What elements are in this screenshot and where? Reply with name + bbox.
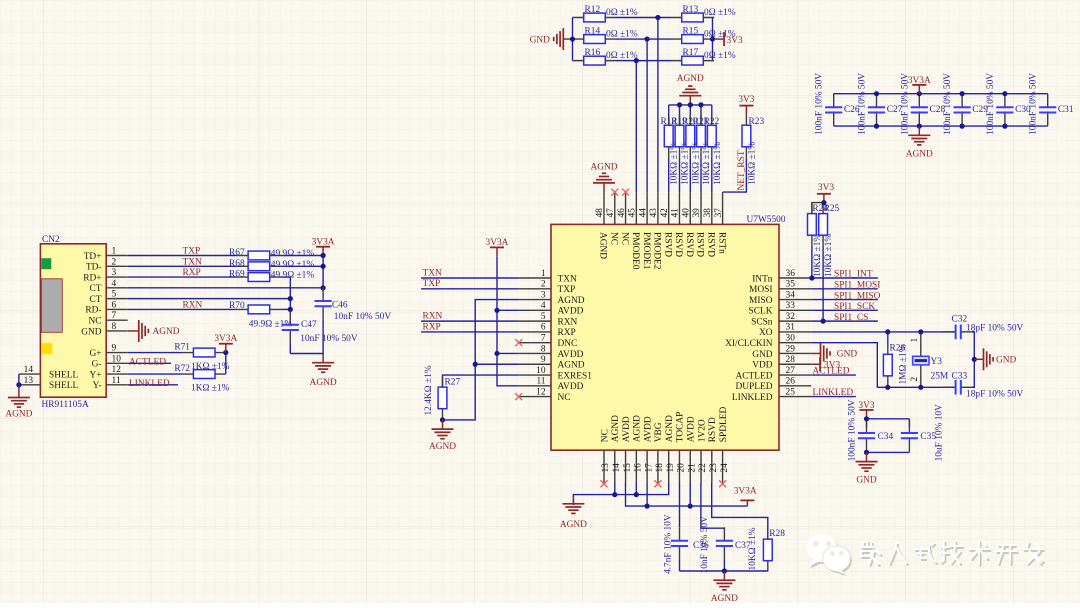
junction: [1002, 124, 1007, 129]
wire AGND rail: [290, 353, 323, 355]
wire: [700, 158, 702, 193]
svg-text:28: 28: [786, 355, 796, 365]
svg-text:10nF 10% 50V: 10nF 10% 50V: [700, 516, 710, 574]
resistor R22: [707, 114, 716, 157]
svg-text:45: 45: [628, 208, 638, 218]
svg-text:INTn: INTn: [752, 274, 773, 284]
wire EXRES1 pin10: [443, 375, 519, 387]
wire pin22 to C37: [701, 483, 725, 531]
svg-text:SHELL: SHELL: [49, 370, 78, 380]
svg-text:SPI1_MISO: SPI1_MISO: [834, 291, 881, 301]
svg-text:Y3: Y3: [931, 357, 943, 367]
svg-text:18pF 10% 50V: 18pF 10% 50V: [966, 390, 1024, 400]
wire: [616, 38, 671, 40]
svg-text:10KΩ ±1%: 10KΩ ±1%: [813, 234, 823, 277]
resistor R17: [671, 56, 714, 65]
wire: [866, 419, 868, 427]
wire XI/CLCKIN: [811, 343, 955, 388]
wire: [723, 560, 725, 571]
wire SPI1_MOSI: [811, 288, 878, 290]
wire shell to AGND: [18, 374, 20, 385]
capacitor C27: [868, 94, 885, 126]
resistor R16: [573, 56, 616, 65]
capacitor C28: [911, 94, 928, 126]
svg-text:TD+: TD+: [84, 252, 102, 262]
junction: [885, 385, 890, 390]
svg-text:AGND: AGND: [711, 594, 738, 603]
wire: [812, 203, 824, 214]
svg-text:RSVD: RSVD: [708, 417, 718, 442]
wire Y- LINKLED: [128, 384, 178, 386]
svg-text:0Ω ±1%: 0Ω ±1%: [606, 30, 638, 40]
IC U7 W5500 body: [551, 224, 779, 450]
junction: [677, 102, 682, 107]
svg-text:15: 15: [623, 463, 633, 473]
svg-text:16: 16: [634, 463, 644, 473]
ground GND: [974, 348, 993, 370]
svg-text:29: 29: [786, 344, 796, 354]
capacitor C26: [825, 94, 842, 126]
wire RXP: [421, 331, 519, 333]
svg-text:PMODE1: PMODE1: [641, 232, 651, 270]
svg-text:40: 40: [681, 208, 691, 218]
ground AGND: [713, 571, 735, 590]
svg-text:1KΩ ±1%: 1KΩ ±1%: [191, 384, 230, 394]
junction: [321, 264, 326, 269]
power 3V3: [739, 106, 753, 115]
svg-text:SPDLED: SPDLED: [719, 407, 729, 443]
capacitor C32: [942, 325, 974, 340]
U7 top pin numbers: [595, 208, 724, 218]
wire: [867, 418, 910, 420]
wire: [866, 451, 868, 454]
svg-text:3V3: 3V3: [738, 95, 754, 105]
svg-text:21: 21: [687, 463, 697, 473]
svg-text:R70: R70: [229, 301, 245, 311]
svg-text:R69: R69: [229, 270, 245, 280]
wire AGND rail: [669, 104, 712, 106]
svg-text:35: 35: [786, 280, 796, 290]
wire: [668, 158, 670, 193]
svg-text:7: 7: [112, 311, 117, 321]
wire 3V3A rail: [322, 256, 324, 288]
svg-text:AGND: AGND: [558, 296, 585, 306]
svg-text:CT: CT: [90, 284, 102, 294]
svg-text:R72: R72: [174, 364, 190, 374]
junction: [440, 417, 445, 422]
svg-text:AVDD: AVDD: [643, 416, 653, 442]
svg-text:R27: R27: [445, 377, 461, 387]
wire: [711, 105, 713, 125]
svg-text:6: 6: [541, 323, 546, 333]
wire: [822, 246, 824, 321]
wire: [713, 60, 715, 62]
capacitor C46: [315, 287, 332, 319]
svg-text:10KΩ ±1%: 10KΩ ±1%: [702, 142, 712, 185]
junction: [494, 351, 499, 356]
svg-text:MOSI: MOSI: [749, 285, 772, 295]
junction: [874, 124, 879, 129]
svg-text:44: 44: [638, 208, 648, 218]
svg-text:C34: C34: [878, 432, 894, 442]
wire: [713, 17, 715, 19]
wire PMODE2 vertical: [657, 18, 659, 193]
svg-text:10: 10: [112, 354, 122, 364]
wire RD-: [128, 308, 238, 310]
junction: [612, 492, 617, 497]
capacitor C47: [282, 311, 299, 343]
svg-text:AVDD: AVDD: [558, 350, 584, 360]
power 3V3: [860, 410, 874, 419]
junction: [634, 58, 639, 63]
wire AGND pin9 stub: [475, 363, 519, 365]
svg-text:38: 38: [703, 208, 713, 218]
wire 3V3A rail: [497, 256, 519, 386]
power 3V3 pin28: [811, 357, 820, 371]
junction: [885, 329, 890, 334]
svg-text:AGND: AGND: [590, 163, 617, 173]
svg-text:17: 17: [644, 463, 654, 473]
resistor R19: [675, 114, 684, 157]
U7 bottom pin numbers: [601, 463, 730, 473]
svg-text:10KΩ ±1%: 10KΩ ±1%: [747, 142, 757, 185]
wire TXN: [421, 277, 519, 279]
svg-text:49.9Ω ±1%: 49.9Ω ±1%: [271, 271, 315, 281]
wire AGND row: [573, 483, 668, 506]
capacitor C31: [1039, 94, 1056, 126]
wire SPI1_CS: [811, 320, 878, 322]
svg-text:33: 33: [786, 301, 796, 311]
svg-text:SCSn: SCSn: [751, 317, 773, 327]
svg-text:G-: G-: [92, 360, 102, 370]
svg-text:6: 6: [112, 300, 117, 310]
ground AGND: [562, 495, 584, 514]
svg-text:49.9Ω ±1%: 49.9Ω ±1%: [271, 249, 315, 259]
wire LINKLED: [811, 396, 856, 398]
U7 bottom pins: [604, 450, 723, 482]
wire: [572, 17, 575, 19]
resistor R23: [742, 114, 751, 157]
svg-text:Y+: Y+: [89, 370, 101, 380]
svg-text:12: 12: [112, 365, 122, 375]
wire: [289, 344, 291, 354]
svg-text:ACTLED: ACTLED: [813, 367, 850, 377]
svg-text:MISO: MISO: [749, 296, 773, 306]
capacitor C35: [901, 419, 918, 451]
junction: [809, 275, 814, 280]
resistor R67: [237, 251, 280, 260]
svg-text:AVDD: AVDD: [558, 382, 584, 392]
capacitor C33: [942, 380, 974, 395]
svg-text:10KΩ ±1%: 10KΩ ±1%: [691, 142, 701, 185]
svg-text:43: 43: [649, 208, 659, 218]
svg-text:3V3A: 3V3A: [214, 334, 237, 344]
junction: [1002, 91, 1007, 96]
connector CN2 body: [40, 244, 106, 397]
svg-text:12: 12: [536, 387, 546, 397]
wire: [887, 332, 889, 344]
svg-text:U7W5500: U7W5500: [747, 215, 786, 225]
svg-text:10nF 10% 50V: 10nF 10% 50V: [300, 334, 358, 344]
svg-text:RXN: RXN: [183, 300, 203, 310]
svg-text:AGND: AGND: [429, 442, 456, 452]
junction: [288, 296, 293, 301]
svg-text:TOCAP: TOCAP: [676, 412, 686, 443]
resistor R25: [819, 203, 828, 246]
svg-text:AGND: AGND: [677, 74, 704, 84]
svg-text:36: 36: [786, 269, 796, 279]
svg-text:ACTLED: ACTLED: [129, 357, 166, 367]
svg-text:0Ω ±1%: 0Ω ±1%: [704, 8, 736, 18]
resistor R13: [671, 13, 714, 22]
svg-text:10nF 10% 50V: 10nF 10% 50V: [334, 312, 392, 322]
resistor R71: [183, 348, 226, 357]
junction: [960, 91, 965, 96]
svg-text:11: 11: [536, 377, 545, 387]
svg-text:20: 20: [677, 463, 687, 473]
svg-text:NC: NC: [88, 316, 101, 326]
svg-text:SHELL: SHELL: [49, 381, 78, 391]
logo watermark: [806, 534, 1044, 576]
power 3V3: [817, 194, 831, 203]
svg-text:100nF 10% 50V: 100nF 10% 50V: [986, 73, 996, 135]
svg-text:AGND: AGND: [153, 327, 180, 337]
resistor R21: [697, 114, 706, 157]
ground GND power port: [554, 28, 573, 50]
svg-text:4: 4: [541, 301, 546, 311]
no-connect pin18: [654, 480, 661, 487]
wire G+: [128, 352, 183, 354]
CN2 left pin names SHELL: [49, 370, 78, 391]
svg-text:R14: R14: [585, 26, 601, 36]
svg-text:14: 14: [24, 365, 34, 375]
svg-text:100nF 10% 50V: 100nF 10% 50V: [858, 73, 868, 135]
junction: [473, 362, 478, 367]
wire AGND pin3/pin9: [443, 300, 519, 420]
junction: [917, 91, 922, 96]
junction: [16, 382, 21, 387]
resistor R14: [573, 35, 616, 44]
wire CT pin5: [128, 298, 291, 300]
no-connect pin13: [601, 480, 608, 487]
resistor R12: [573, 13, 616, 22]
svg-text:R15: R15: [683, 26, 699, 36]
wire XO row: [811, 331, 955, 333]
svg-text:31: 31: [786, 323, 796, 333]
wire: [689, 158, 691, 193]
U7 top pins: [604, 192, 723, 224]
junction: [864, 416, 869, 421]
svg-text:CT: CT: [90, 295, 102, 305]
wire SPI1_SCK: [811, 309, 878, 311]
svg-text:3V3A: 3V3A: [734, 486, 757, 496]
svg-text:TXP: TXP: [183, 247, 201, 257]
wire PMODE0 vertical: [635, 61, 637, 192]
svg-text:TXN: TXN: [423, 268, 442, 278]
svg-text:HR911105A: HR911105A: [42, 400, 89, 410]
ground AGND: [312, 354, 334, 373]
wire pin23 to R28: [712, 483, 768, 540]
ground GND: [856, 452, 878, 471]
svg-text:11: 11: [112, 376, 121, 386]
svg-text:SCLK: SCLK: [749, 307, 773, 317]
svg-text:12.4KΩ ±1%: 12.4KΩ ±1%: [424, 365, 434, 415]
svg-text:R68: R68: [229, 259, 245, 269]
svg-text:9: 9: [112, 344, 117, 354]
junction: [321, 285, 326, 290]
svg-text:RSVD: RSVD: [695, 232, 705, 257]
svg-text:10KΩ ±1%: 10KΩ ±1%: [748, 527, 758, 570]
wire R70 to CT node: [281, 308, 291, 310]
junction: [698, 102, 703, 107]
U7 right pin numbers: [786, 269, 796, 398]
junction: [722, 568, 727, 573]
U7 left pin numbers: [536, 269, 546, 398]
CN2 right pins: [106, 256, 128, 385]
svg-text:RSVD: RSVD: [706, 232, 716, 257]
wire AGND rail: [680, 570, 768, 572]
svg-text:1V2O: 1V2O: [697, 419, 707, 442]
wire SPI1_INT: [811, 277, 878, 279]
svg-text:R25: R25: [824, 204, 840, 214]
svg-text:0Ω ±1%: 0Ω ±1%: [704, 51, 736, 61]
wire pin16: [635, 483, 637, 495]
svg-text:ACTLED: ACTLED: [736, 371, 773, 381]
svg-text:AVDD: AVDD: [687, 416, 697, 442]
svg-text:R16: R16: [585, 48, 601, 58]
svg-text:R28: R28: [769, 529, 785, 539]
svg-text:48: 48: [595, 208, 605, 218]
wire AVDD row: [626, 483, 748, 507]
power 3V3A: [490, 247, 504, 256]
svg-text:XO: XO: [759, 328, 773, 338]
wire left bus: [572, 18, 574, 61]
svg-text:2: 2: [910, 377, 920, 382]
wire: [225, 353, 227, 375]
junction: [864, 450, 869, 455]
junction: [494, 308, 499, 313]
wire: [322, 320, 324, 354]
svg-text:RXP: RXP: [183, 268, 201, 278]
svg-text:100nF 10% 50V: 100nF 10% 50V: [815, 73, 825, 135]
resistor R20: [686, 114, 695, 157]
wire: [972, 332, 975, 387]
svg-text:DUPLED: DUPLED: [736, 382, 773, 392]
ground GND pin29: [811, 342, 830, 364]
svg-text:NC: NC: [558, 393, 571, 403]
svg-text:39: 39: [692, 208, 702, 218]
svg-text:PMODE2: PMODE2: [652, 232, 662, 270]
svg-text:NC: NC: [619, 232, 629, 245]
CN2 left pin numbers: [24, 365, 34, 386]
svg-text:AVDD: AVDD: [558, 307, 584, 317]
U7 left pins: [519, 278, 551, 397]
svg-text:22: 22: [698, 463, 708, 473]
svg-text:NC: NC: [600, 429, 610, 442]
junction: [874, 91, 879, 96]
svg-text:13: 13: [24, 376, 34, 386]
svg-text:100nF 10% 50V: 100nF 10% 50V: [943, 73, 953, 135]
svg-text:1MΩ ±1%: 1MΩ ±1%: [898, 344, 908, 384]
wire: [713, 38, 715, 40]
wire R69 to CT node: [281, 277, 291, 299]
wire TD+: [128, 255, 238, 257]
svg-text:25: 25: [786, 387, 796, 397]
svg-text:AGND: AGND: [560, 520, 587, 530]
wire: [689, 105, 691, 125]
svg-text:R71: R71: [174, 343, 190, 353]
wire: [711, 158, 713, 193]
svg-text:RXP: RXP: [423, 322, 441, 332]
junction: [688, 102, 693, 107]
svg-text:41: 41: [671, 208, 681, 218]
junction: [288, 307, 293, 312]
svg-text:0Ω ±1%: 0Ω ±1%: [704, 30, 736, 40]
junction: [223, 350, 228, 355]
capacitor C36: [671, 527, 688, 559]
CN2 right pin numbers: [112, 247, 122, 386]
wire: [572, 38, 575, 40]
ground AGND pin8: [128, 330, 130, 332]
svg-text:RXN: RXN: [558, 317, 578, 327]
junction: [710, 36, 715, 41]
svg-text:RXN: RXN: [423, 312, 443, 322]
junction: [645, 36, 650, 41]
power 3V3A: [740, 500, 754, 506]
svg-text:CN2: CN2: [42, 235, 60, 245]
svg-text:R17: R17: [683, 48, 699, 58]
svg-text:VDD: VDD: [752, 361, 773, 371]
junction: [972, 357, 977, 362]
svg-text:42: 42: [660, 208, 670, 218]
crystal Y3: [913, 332, 929, 387]
svg-text:NET_RST: NET_RST: [737, 150, 747, 190]
svg-text:7: 7: [541, 333, 546, 343]
svg-text:AGND: AGND: [665, 415, 675, 442]
resistor R70: [237, 305, 280, 314]
wire RD+: [128, 276, 238, 278]
no-connect pin24: [719, 480, 726, 487]
svg-text:DNC: DNC: [558, 339, 578, 349]
CN2 gray jack: [41, 279, 62, 333]
wire: [700, 105, 702, 125]
svg-text:10: 10: [536, 366, 546, 376]
svg-text:RSTn: RSTn: [716, 232, 726, 254]
svg-text:LINKLED: LINKLED: [813, 388, 854, 398]
junction: [645, 504, 650, 509]
svg-text:4: 4: [112, 279, 117, 289]
wire pin14: [614, 483, 616, 495]
svg-text:3V3A: 3V3A: [908, 76, 931, 86]
U7 right pins: [779, 278, 811, 397]
svg-text:100nF 10% 50V: 100nF 10% 50V: [848, 399, 858, 461]
svg-text:RSVD: RSVD: [673, 232, 683, 257]
svg-text:AGND: AGND: [611, 415, 621, 442]
junction: [917, 124, 922, 129]
svg-text:10KΩ ±1%: 10KΩ ±1%: [670, 142, 680, 185]
svg-text:26: 26: [786, 377, 796, 387]
junction: [918, 385, 923, 390]
svg-text:14: 14: [612, 463, 622, 473]
resistor R26: [883, 344, 892, 387]
svg-text:10KΩ ±1%: 10KΩ ±1%: [713, 142, 723, 185]
wire ACTLED: [811, 374, 856, 376]
wire AVDD pin4: [497, 309, 519, 311]
svg-text:10KΩ ±1%: 10KΩ ±1%: [681, 142, 691, 185]
svg-text:3V3: 3V3: [818, 183, 834, 193]
svg-text:5: 5: [112, 290, 117, 300]
U7 left pin names: [558, 274, 593, 403]
